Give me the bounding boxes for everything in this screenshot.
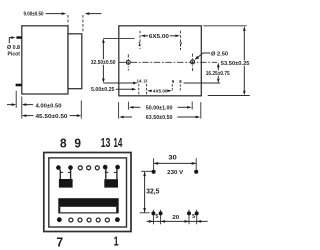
pcb layout dimension 30 [154, 156, 197, 171]
mounting hole left Ø2.5 [126, 54, 130, 70]
svg-text:230 V: 230 V [167, 170, 183, 176]
svg-text:1: 1 [114, 233, 119, 248]
secondary winding 13-14 [104, 169, 118, 188]
terminal 11 (open) [87, 166, 91, 170]
dimension 63.50±0.50 [119, 102, 201, 121]
mounting hole right Ø2.5 [191, 54, 195, 73]
pin row labels 14 13 9 8 with dashed leaders [137, 78, 182, 95]
solder pad sec 1 [151, 211, 155, 215]
dimension 4X5.00 [147, 89, 172, 95]
terminal 3 (open) [96, 218, 100, 222]
dimension 5.00±0.25 [91, 87, 136, 93]
svg-text:5: 5 [192, 214, 195, 220]
svg-text:20: 20 [172, 215, 179, 221]
terminal 14 (filled) [115, 165, 120, 170]
svg-text:4X5.00: 4X5.00 [153, 89, 168, 95]
svg-text:9: 9 [74, 136, 81, 151]
svg-text:50.00±1.00: 50.00±1.00 [146, 106, 173, 112]
terminal 6 (open) [69, 218, 73, 222]
svg-text:14: 14 [137, 78, 142, 84]
svg-text:8: 8 [60, 136, 67, 151]
svg-text:9: 9 [172, 79, 175, 85]
solder pad 230V right [194, 170, 198, 174]
dimension 4.00±0.50 [7, 91, 62, 119]
connection diagram outer case [44, 153, 131, 232]
pin row extension line left with arrow [103, 82, 137, 85]
pin row extension line right [184, 82, 221, 84]
solder pad 230V left [152, 170, 156, 174]
dimension 32.50±0.50 [90, 38, 134, 83]
horizontal centerline [119, 61, 217, 63]
connection diagram inner bobbin [49, 158, 127, 227]
leader arrow to pin Ø0.8 [9, 38, 12, 44]
dimension 53.50±0.25 [203, 26, 250, 96]
dimension 16.25±0.75 [205, 63, 230, 83]
svg-text:4.00±0.50: 4.00±0.50 [36, 103, 62, 109]
terminal 9 (filled) [68, 165, 73, 170]
footprint outline (top view) [119, 26, 202, 96]
svg-text:30: 30 [168, 156, 177, 162]
dimension 50.00±1.00 [128, 102, 192, 112]
svg-text:9.00±0.50: 9.00±0.50 [24, 11, 44, 17]
leader Ø 2.50 [195, 51, 229, 60]
svg-text:53.50±0.25: 53.50±0.25 [221, 61, 250, 67]
dimension 45.50±0.50 [22, 101, 82, 121]
svg-text:5: 5 [155, 214, 158, 220]
svg-text:32.50±0.50: 32.50±0.50 [91, 60, 116, 66]
svg-text:14: 14 [113, 135, 122, 150]
svg-text:7: 7 [179, 43, 182, 49]
terminal 1 (filled) [115, 217, 120, 222]
terminal 12 (open) [95, 166, 99, 170]
solder pad sec 2 [159, 211, 163, 215]
dimension 6X5.00 with pins 1 and 7 [138, 31, 183, 50]
svg-text:Ø 2.50: Ø 2.50 [211, 51, 228, 57]
svg-text:45.50±0.50: 45.50±0.50 [36, 114, 68, 120]
terminal 4 (open) [87, 218, 91, 222]
svg-text:6X5.00: 6X5.00 [149, 34, 169, 40]
terminal 8 (filled) [56, 165, 61, 170]
secondary pad ticks [153, 210, 196, 225]
solder pad sec 4 [195, 211, 199, 215]
pcb layout dimension 32,5 [140, 171, 160, 213]
dimension 9.00±0.50 [24, 11, 102, 32]
primary winding bar [58, 198, 118, 213]
solder pad sec 3 [187, 211, 191, 215]
svg-text:13: 13 [101, 135, 111, 150]
pcb layout dimension 5 20 5 baseline [146, 220, 207, 223]
svg-text:Ø 0.8: Ø 0.8 [7, 45, 20, 51]
terminal 2 (open) [105, 218, 109, 222]
svg-text:7: 7 [56, 235, 63, 250]
terminal 10 (open) [78, 166, 82, 170]
svg-text:32,5: 32,5 [146, 189, 159, 196]
svg-text:8: 8 [179, 79, 182, 85]
terminal 5 (open) [78, 218, 82, 222]
svg-text:Picot: Picot [8, 51, 21, 57]
transformer body (side view) [22, 26, 68, 94]
svg-text:63.50±0.50: 63.50±0.50 [146, 115, 173, 121]
svg-text:16.25±0.75: 16.25±0.75 [206, 71, 230, 77]
lower pin picot (side view) [16, 84, 22, 87]
upper pin picot (side view) [16, 36, 22, 39]
core flange (side view) [68, 34, 82, 89]
secondary winding 8-9 [59, 170, 73, 188]
svg-text:13: 13 [143, 78, 147, 84]
svg-text:5.00±0.25: 5.00±0.25 [91, 87, 115, 93]
terminal 7 (filled) [57, 217, 62, 222]
terminal 13 (filled) [103, 165, 108, 170]
svg-text:1: 1 [138, 42, 141, 48]
